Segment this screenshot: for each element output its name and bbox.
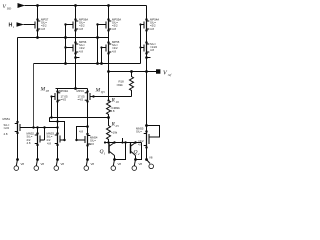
- junction dots on y37: [36, 36, 39, 39]
- BJT Q1: [109, 143, 115, 160]
- wire left branch x17 down: [17, 38, 19, 123]
- svg-text:i: i: [13, 25, 14, 29]
- junction dot rail x75: [74, 4, 77, 7]
- svg-text:V8: V8: [21, 162, 25, 166]
- label M7 text: [47, 132, 55, 142]
- transistor M5 MN51: [15, 122, 25, 160]
- svg-text:4.8: 4.8: [150, 48, 154, 52]
- svg-text:1: 1: [104, 152, 106, 156]
- svg-text:4.8: 4.8: [79, 27, 83, 31]
- svg-text:Q5: Q5: [101, 90, 105, 94]
- junction dot rail x37: [36, 4, 39, 7]
- label M1 text: [41, 18, 49, 31]
- resistor R18: [130, 72, 134, 97]
- wire M3B gate stub x101: [101, 48, 103, 64]
- wire bias into y127 from x33: [34, 127, 38, 129]
- svg-text:M: M: [40, 87, 46, 93]
- label M6 text: [27, 132, 52, 146]
- svg-text:V8: V8: [91, 162, 95, 166]
- svg-text:4.8: 4.8: [112, 49, 116, 53]
- label Q1: [100, 149, 106, 156]
- transistor M4B MP54: [141, 43, 150, 72]
- svg-text:=19k: =19k: [111, 131, 118, 135]
- svg-text:DD: DD: [6, 6, 12, 10]
- svg-text:ref: ref: [168, 73, 173, 77]
- wire M6 gate drop x44: [44, 128, 46, 141]
- ground terminal x135: [132, 158, 142, 170]
- svg-text:V8: V8: [61, 162, 65, 166]
- junction dot rail x108: [107, 4, 110, 7]
- transistor M7 MN53: [55, 134, 65, 160]
- wire M5 gate line y127: [20, 127, 58, 129]
- op-amp tail wire y88: [56, 88, 88, 90]
- svg-text:03: 03: [46, 89, 50, 93]
- svg-text:4.8: 4.8: [79, 130, 83, 134]
- svg-text:H: H: [9, 23, 13, 29]
- svg-text:MN51: MN51: [3, 117, 11, 121]
- transistor M9 bottom right: [145, 124, 148, 127]
- wire gate bias line y37: [18, 37, 109, 39]
- junction dot R19/R25: [107, 116, 110, 119]
- transistor M3A MP55A: [98, 6, 112, 43]
- ground terminal x37: [34, 158, 44, 170]
- node Vref label: [163, 71, 172, 78]
- svg-text:4.8: 4.8: [41, 27, 45, 31]
- junction dot M2B drain tick: [74, 56, 77, 59]
- label M4A text: [150, 18, 159, 31]
- wire feedback tap y117: [50, 117, 109, 119]
- svg-text:S/L=: S/L=: [136, 130, 142, 134]
- resistor R19: [107, 99, 109, 101]
- svg-text:=82k: =82k: [117, 83, 124, 87]
- wire R18 bottom to diff gate y96: [94, 96, 132, 98]
- svg-text:4.8: 4.8: [79, 49, 83, 53]
- wire M4 gate riser x140: [140, 25, 142, 64]
- svg-text:=4/2: =4/2: [78, 98, 84, 102]
- label M3B text: [112, 40, 120, 53]
- label M03: [40, 87, 50, 94]
- svg-text:V8: V8: [118, 162, 122, 166]
- transistor M2B MP56: [66, 38, 79, 89]
- svg-text:4.8: 4.8: [111, 109, 115, 113]
- svg-text:25: 25: [116, 124, 120, 128]
- wire gate chain x65: [65, 25, 67, 64]
- wire op-amp output y63: [34, 63, 141, 65]
- wire Q2 tie U: [136, 143, 141, 160]
- label M5 text: [3, 117, 11, 136]
- wire Vref line y71: [109, 71, 157, 73]
- wire Hi to M1 gate: [24, 24, 36, 26]
- node Hi input label: [9, 23, 14, 29]
- label M4B text: [145, 56, 148, 59]
- label R25: [111, 122, 120, 129]
- ground terminal x57: [54, 158, 64, 170]
- ground terminal x114: [111, 158, 121, 170]
- terminal arrow VDD: [18, 3, 26, 8]
- wire Q1 tie U: [115, 143, 125, 160]
- svg-text:4.8: 4.8: [150, 27, 154, 31]
- wire diff left gate drop x51: [51, 97, 53, 118]
- svg-text:MP03A: MP03A: [59, 89, 68, 93]
- transistor MP03 diff pair right: [85, 89, 94, 135]
- wire elbow M8 diode tie: [86, 125, 89, 128]
- svg-text:19: 19: [116, 100, 120, 104]
- wire M6 top stub x37: [37, 128, 39, 134]
- ground terminal x87: [84, 158, 94, 170]
- svg-text:=2/2: =2/2: [4, 126, 10, 130]
- label R19: [111, 98, 120, 105]
- transistor M1 MP57: [35, 6, 40, 38]
- terminal Vref: [156, 69, 160, 73]
- svg-text:4.8: 4.8: [27, 141, 31, 145]
- transistor MP03A diff pair left: [52, 89, 61, 134]
- svg-text:V: V: [3, 4, 7, 10]
- svg-text:4.8: 4.8: [4, 132, 8, 136]
- transistor M8 MN54: [77, 134, 91, 160]
- wire gate chain x97: [97, 25, 99, 64]
- label MP03A text: [59, 89, 68, 102]
- svg-text:4.8: 4.8: [112, 27, 116, 31]
- transistor M3B MP55: [102, 43, 112, 101]
- terminal arrow Hi: [17, 22, 25, 27]
- transistor M2A MP56A: [66, 6, 79, 38]
- node VDD label: [3, 4, 13, 10]
- label M2B text: [79, 40, 87, 53]
- label M3A text: [112, 18, 121, 31]
- label M9 text: [136, 127, 144, 147]
- ground terminal x146: [145, 156, 153, 169]
- svg-text:4.8: 4.8: [47, 142, 51, 146]
- svg-text:V8: V8: [41, 162, 45, 166]
- label M8 text: [79, 130, 98, 146]
- transistor M6 MN52: [35, 134, 45, 160]
- resistor R25: [107, 118, 111, 144]
- svg-text:V8: V8: [149, 156, 153, 160]
- label Q2: [134, 150, 140, 157]
- label MP03 text: [77, 89, 85, 102]
- BJT Q2: [131, 143, 136, 160]
- svg-text:Q: Q: [134, 150, 138, 156]
- svg-text:M: M: [95, 88, 101, 94]
- wire VDD rail: [25, 5, 147, 7]
- svg-text:MP03: MP03: [77, 89, 85, 93]
- wire Q1 collector line: [105, 142, 142, 144]
- transistor M4A MP54A: [141, 6, 150, 43]
- svg-text:2/2: 2/2: [47, 138, 51, 142]
- wire corner to M7 gate rail: [50, 118, 65, 141]
- ground terminal x17: [14, 158, 24, 170]
- svg-text:=4/2: =4/2: [61, 98, 67, 102]
- svg-text:2: 2: [138, 152, 140, 156]
- label MQ5: [95, 88, 106, 95]
- wire M4 drain drop x148: [146, 72, 148, 131]
- wire bias drop x33: [33, 64, 35, 128]
- svg-text:V8: V8: [139, 162, 143, 166]
- svg-text:2/2: 2/2: [90, 142, 94, 146]
- label M2A text: [79, 18, 88, 31]
- label R18 text: [117, 80, 125, 88]
